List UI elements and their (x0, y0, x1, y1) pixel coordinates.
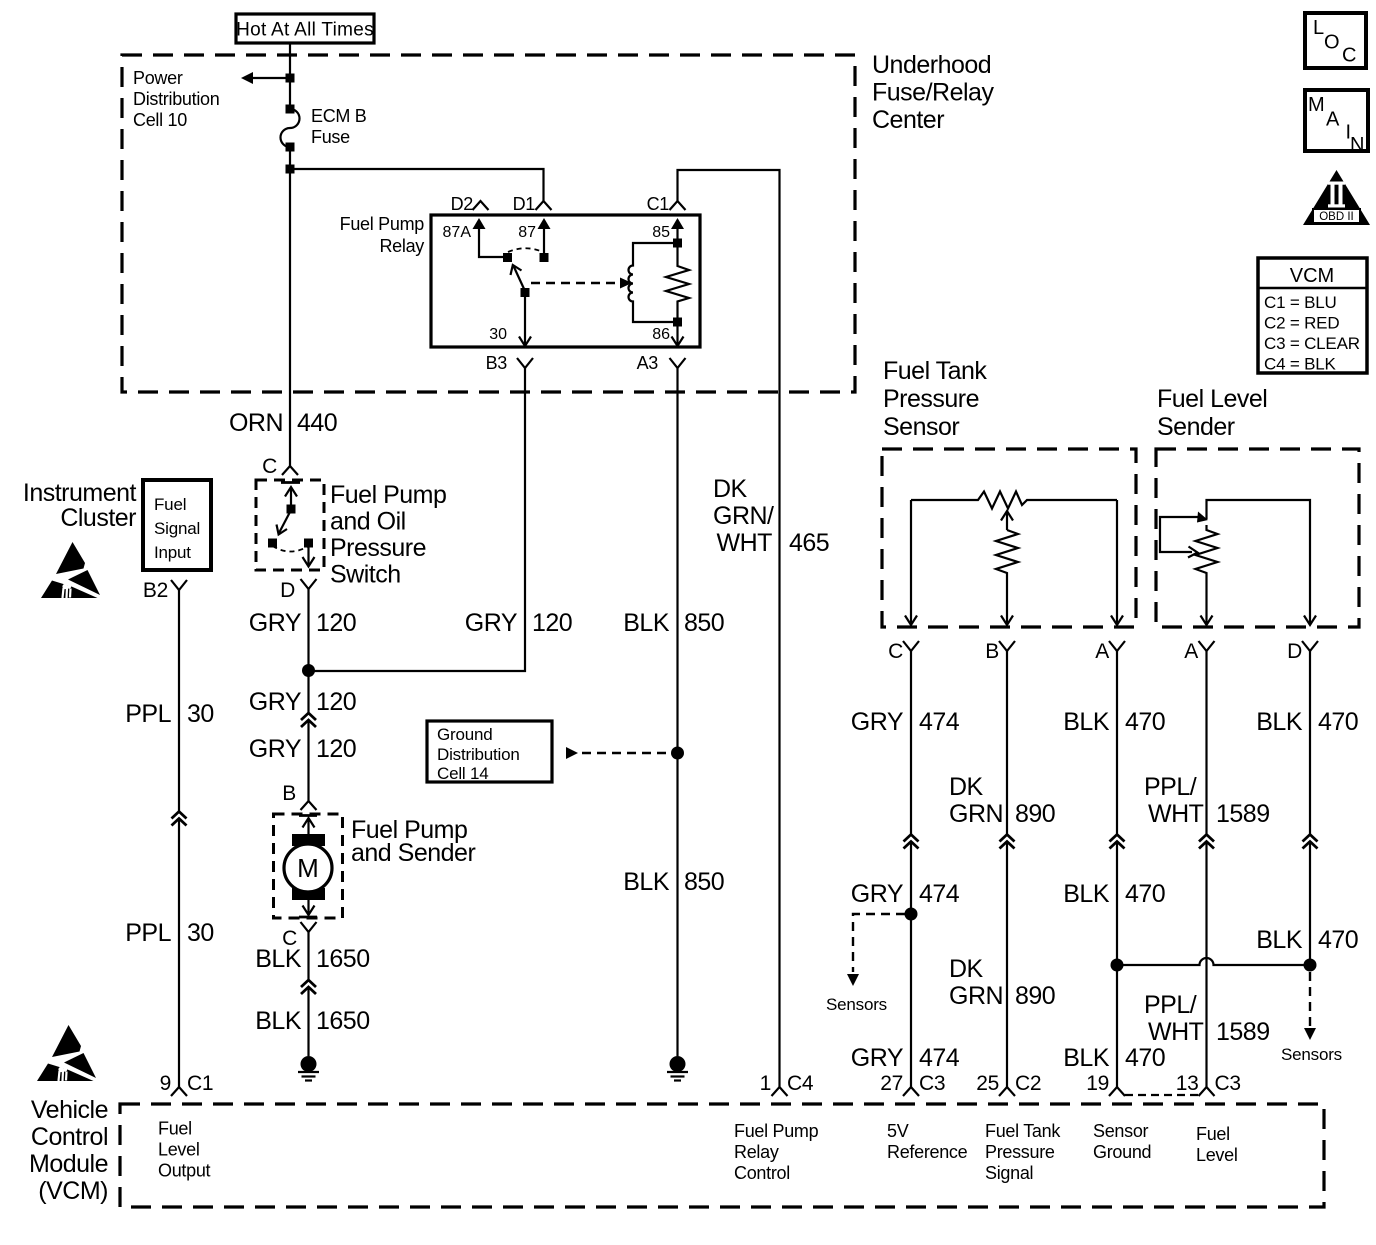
svg-text:Fuel Pump: Fuel Pump (340, 214, 425, 234)
svg-text:M: M (297, 853, 319, 883)
ESD symbol lower (37, 1025, 96, 1081)
svg-text:470: 470 (1318, 926, 1358, 954)
svg-text:D: D (1287, 640, 1302, 663)
svg-text:Control: Control (734, 1163, 790, 1183)
svg-text:BLK: BLK (623, 868, 670, 896)
svg-text:890: 890 (1015, 800, 1055, 828)
svg-text:GRN: GRN (949, 800, 1003, 828)
sensors dashed arrow right (1309, 972, 1311, 1026)
svg-text:Fuel: Fuel (1196, 1124, 1230, 1144)
svg-text:WHT: WHT (1148, 800, 1204, 828)
column B: DK GRN 890 (1006, 651, 1008, 835)
wiper loop (1160, 517, 1200, 552)
wire PPL 30 (178, 590, 180, 812)
wire ORN 440 from Hot box to fuse (289, 43, 291, 109)
svg-text:13: 13 (1176, 1072, 1199, 1095)
svg-text:ORN: ORN (229, 409, 283, 437)
sensor right leg A (1116, 500, 1118, 625)
svg-text:Fuel Level: Fuel Level (1157, 385, 1267, 413)
svg-text:Output: Output (158, 1161, 211, 1181)
pin 87A (473, 218, 486, 229)
svg-text:Pressure: Pressure (883, 385, 979, 413)
svg-text:86: 86 (652, 326, 670, 343)
svg-text:C2: C2 (1015, 1072, 1041, 1095)
svg-text:Input: Input (154, 543, 191, 562)
svg-text:Underhood: Underhood (872, 51, 991, 79)
wire C1 to DK GRN column (678, 170, 780, 1087)
wiper arrow (1001, 511, 1013, 521)
svg-text:C3 = CLEAR: C3 = CLEAR (1264, 334, 1360, 353)
svg-text:M: M (1308, 94, 1325, 116)
svg-text:C1: C1 (187, 1072, 213, 1095)
column A: BLK 470 (1116, 651, 1118, 835)
sensor ground link A to D with hop (1117, 958, 1310, 965)
svg-text:VCM: VCM (1290, 265, 1334, 287)
contact squares (268, 539, 277, 548)
VCM entry 1 C4 (772, 1087, 788, 1096)
OBD II triangle (1303, 170, 1370, 225)
vertical resistor (996, 530, 1018, 612)
svg-text:DK: DK (713, 475, 748, 503)
svg-text:Sensor: Sensor (883, 413, 959, 441)
svg-text:BLK: BLK (1063, 708, 1110, 736)
svg-text:OBD II: OBD II (1319, 211, 1354, 223)
svg-text:Module: Module (29, 1150, 108, 1178)
svg-text:474: 474 (919, 708, 960, 736)
svg-text:GRY: GRY (851, 708, 904, 736)
svg-text:B: B (282, 782, 296, 805)
svg-text:GRY: GRY (249, 688, 302, 716)
svg-text:Cluster: Cluster (60, 504, 136, 532)
relay coil (629, 243, 675, 322)
coil resistor (666, 243, 689, 322)
svg-text:C3: C3 (919, 1072, 945, 1095)
ESD symbol (41, 542, 100, 598)
svg-text:120: 120 (316, 688, 356, 716)
svg-text:Level: Level (1196, 1145, 1238, 1165)
svg-text:B2: B2 (143, 579, 168, 602)
svg-text:B3: B3 (486, 353, 508, 373)
svg-text:GRN: GRN (949, 982, 1003, 1010)
VCM entry 9 C1 (171, 1087, 187, 1096)
svg-text:Level: Level (158, 1140, 200, 1160)
svg-text:A: A (1184, 640, 1198, 663)
svg-text:Sensors: Sensors (826, 995, 887, 1014)
svg-text:PPL: PPL (125, 919, 171, 947)
svg-text:GRY: GRY (851, 880, 904, 908)
svg-text:A3: A3 (637, 353, 659, 373)
dashed link 19-13 (1125, 1094, 1199, 1096)
svg-text:1589: 1589 (1216, 1018, 1270, 1046)
switch contact squares (503, 253, 512, 262)
svg-text:GRN/: GRN/ (713, 502, 774, 530)
svg-text:9: 9 (160, 1072, 171, 1095)
svg-text:Reference: Reference (887, 1142, 968, 1162)
LOC box (1305, 13, 1366, 68)
Hot At All Times box (236, 14, 374, 43)
svg-text:B: B (985, 640, 999, 663)
Fuel Signal Input box (143, 480, 211, 570)
svg-text:440: 440 (297, 409, 337, 437)
column C: GRY 474 (910, 651, 912, 835)
svg-text:Fuel Pump: Fuel Pump (330, 481, 446, 509)
arrow to Power Distribution (250, 77, 290, 79)
svg-text:120: 120 (316, 735, 356, 763)
svg-text:N: N (1350, 134, 1364, 156)
svg-text:Sensors: Sensors (1281, 1045, 1342, 1064)
sensor left leg C (910, 500, 912, 625)
sender resistor (1196, 525, 1218, 612)
svg-text:25: 25 (976, 1072, 999, 1095)
wire GRY 120 from B3 (309, 368, 526, 671)
svg-text:Fuel Tank: Fuel Tank (985, 1121, 1061, 1141)
svg-text:850: 850 (684, 868, 724, 896)
svg-text:PPL: PPL (125, 700, 171, 728)
MAIN box (1305, 90, 1368, 151)
svg-text:C: C (888, 640, 903, 663)
svg-text:C: C (1342, 45, 1356, 67)
svg-text:Cell 14: Cell 14 (437, 764, 489, 783)
svg-text:1650: 1650 (316, 945, 370, 973)
svg-text:GRY: GRY (851, 1044, 904, 1072)
svg-text:Power: Power (133, 68, 183, 88)
svg-text:C1 = BLU: C1 = BLU (1264, 293, 1337, 312)
svg-text:BLK: BLK (1256, 708, 1303, 736)
svg-text:O: O (1324, 32, 1340, 54)
ground (298, 1056, 319, 1081)
motor entry arrow (303, 818, 315, 828)
svg-text:Vehicle: Vehicle (31, 1096, 108, 1124)
svg-text:470: 470 (1125, 880, 1165, 908)
svg-text:A: A (1326, 109, 1340, 131)
wire BLK 850 (676, 368, 678, 1056)
svg-text:Switch: Switch (330, 561, 401, 589)
sensors dashed arrow left (853, 914, 905, 972)
svg-text:Signal: Signal (154, 519, 200, 538)
moving contact arrow up (290, 487, 292, 509)
svg-text:GRY: GRY (249, 735, 302, 763)
svg-text:C4: C4 (787, 1072, 814, 1095)
VCM connector table (1258, 258, 1367, 373)
svg-text:WHT: WHT (1148, 1018, 1204, 1046)
sender top wire (1207, 500, 1311, 625)
pin 86 (676, 322, 678, 346)
svg-text:87A: 87A (443, 224, 472, 241)
pin 87 (538, 218, 551, 229)
relay switch arm (514, 266, 526, 291)
svg-text:BLK: BLK (1063, 1044, 1110, 1072)
svg-text:85: 85 (652, 224, 670, 241)
svg-text:Instrument: Instrument (23, 479, 137, 507)
svg-text:Sender: Sender (1157, 413, 1235, 441)
svg-text:Control: Control (31, 1123, 108, 1151)
svg-text:and Oil: and Oil (330, 508, 406, 536)
dashed throw arc (273, 546, 309, 552)
svg-text:GRY: GRY (465, 609, 518, 637)
svg-text:C4 = BLK: C4 = BLK (1264, 355, 1336, 374)
svg-text:470: 470 (1318, 708, 1358, 736)
svg-text:PPL/: PPL/ (1144, 773, 1197, 801)
svg-text:A: A (1095, 640, 1109, 663)
svg-text:Fuel Tank: Fuel Tank (883, 357, 987, 385)
output arrow down (307, 543, 309, 567)
Underhood Fuse/Relay Center dashed box (122, 55, 855, 392)
svg-text:120: 120 (316, 609, 356, 637)
svg-text:BLK: BLK (1063, 880, 1110, 908)
svg-text:Fuel Pump: Fuel Pump (734, 1121, 819, 1141)
relay box (431, 215, 700, 347)
svg-text:D1: D1 (513, 194, 536, 214)
Fuel Pump and Oil Pressure Switch dashed box (256, 480, 324, 570)
svg-text:Fuse/Relay: Fuse/Relay (872, 79, 994, 107)
svg-text:(VCM): (VCM) (38, 1177, 108, 1205)
svg-text:1: 1 (760, 1072, 771, 1095)
svg-text:87: 87 (518, 224, 536, 241)
svg-text:C2 = RED: C2 = RED (1264, 314, 1339, 333)
ground (667, 1056, 688, 1081)
mechanical link dashed (531, 282, 621, 284)
wire below fuse (289, 147, 291, 466)
svg-text:Fuel: Fuel (154, 495, 186, 514)
svg-text:Sensor: Sensor (1093, 1121, 1149, 1141)
svg-text:Distribution: Distribution (437, 745, 520, 764)
motor M (292, 834, 325, 846)
sensor top wire with resistor (911, 492, 1117, 509)
svg-text:Pressure: Pressure (985, 1142, 1055, 1162)
svg-text:30: 30 (187, 919, 214, 947)
svg-text:Fuse: Fuse (311, 127, 350, 147)
svg-text:Distribution: Distribution (133, 89, 219, 109)
svg-text:19: 19 (1086, 1072, 1109, 1095)
svg-text:30: 30 (489, 326, 507, 343)
junction with ground distribution link (671, 747, 684, 760)
svg-text:WHT: WHT (717, 529, 773, 557)
svg-text:ECM B: ECM B (311, 106, 367, 126)
svg-text:GRY: GRY (249, 609, 302, 637)
fuse ECM B (286, 105, 295, 114)
svg-text:C3: C3 (1215, 1072, 1241, 1095)
svg-text:470: 470 (1125, 708, 1165, 736)
svg-text:L: L (1313, 17, 1324, 39)
svg-text:27: 27 (880, 1072, 903, 1095)
svg-text:Relay: Relay (379, 236, 424, 256)
junction to relay D1 (286, 165, 295, 174)
svg-text:and Sender: and Sender (351, 839, 475, 867)
pin 85 (671, 218, 684, 229)
svg-text:1589: 1589 (1216, 800, 1270, 828)
svg-text:Pressure: Pressure (330, 534, 426, 562)
svg-text:465: 465 (789, 529, 829, 557)
svg-text:890: 890 (1015, 982, 1055, 1010)
svg-text:Ground: Ground (437, 725, 493, 744)
svg-text:C: C (262, 455, 277, 478)
svg-text:DK: DK (949, 955, 984, 983)
wire to D1 (290, 169, 544, 201)
dashed throw arc (508, 248, 543, 252)
svg-text:Fuel: Fuel (158, 1119, 192, 1139)
svg-text:Relay: Relay (734, 1142, 779, 1162)
svg-text:850: 850 (684, 609, 724, 637)
svg-text:PPL/: PPL/ (1144, 991, 1197, 1019)
svg-text:120: 120 (532, 609, 572, 637)
svg-text:5V: 5V (887, 1121, 909, 1141)
svg-text:Cell 10: Cell 10 (133, 110, 187, 130)
switch arm with arrowhead (279, 510, 291, 533)
svg-text:C1: C1 (647, 194, 670, 214)
svg-text:BLK: BLK (1256, 926, 1303, 954)
svg-text:BLK: BLK (255, 1007, 302, 1035)
svg-text:D2: D2 (451, 194, 474, 214)
svg-text:474: 474 (919, 880, 960, 908)
svg-text:D: D (280, 579, 295, 602)
svg-text:BLK: BLK (255, 945, 302, 973)
switch top plate (281, 481, 300, 484)
wire BLK 1650 (307, 932, 309, 981)
svg-text:Ground: Ground (1093, 1142, 1151, 1162)
column A2: PPL/WHT 1589 (1205, 651, 1207, 835)
svg-text:470: 470 (1125, 1044, 1165, 1072)
svg-text:1650: 1650 (316, 1007, 370, 1035)
svg-text:Signal: Signal (985, 1163, 1033, 1183)
Fuel Pump and Sender dashed box (274, 814, 343, 918)
column D: BLK 470 (1309, 651, 1311, 835)
svg-text:DK: DK (949, 773, 984, 801)
svg-text:BLK: BLK (623, 609, 670, 637)
motor exit arrow (307, 892, 309, 915)
svg-text:Center: Center (872, 106, 944, 134)
svg-text:30: 30 (187, 700, 214, 728)
pivot square / pin 30 (521, 288, 530, 297)
svg-text:474: 474 (919, 1044, 960, 1072)
svg-text:Hot At All Times: Hot At All Times (236, 20, 374, 41)
wire from D to junction (307, 589, 309, 714)
